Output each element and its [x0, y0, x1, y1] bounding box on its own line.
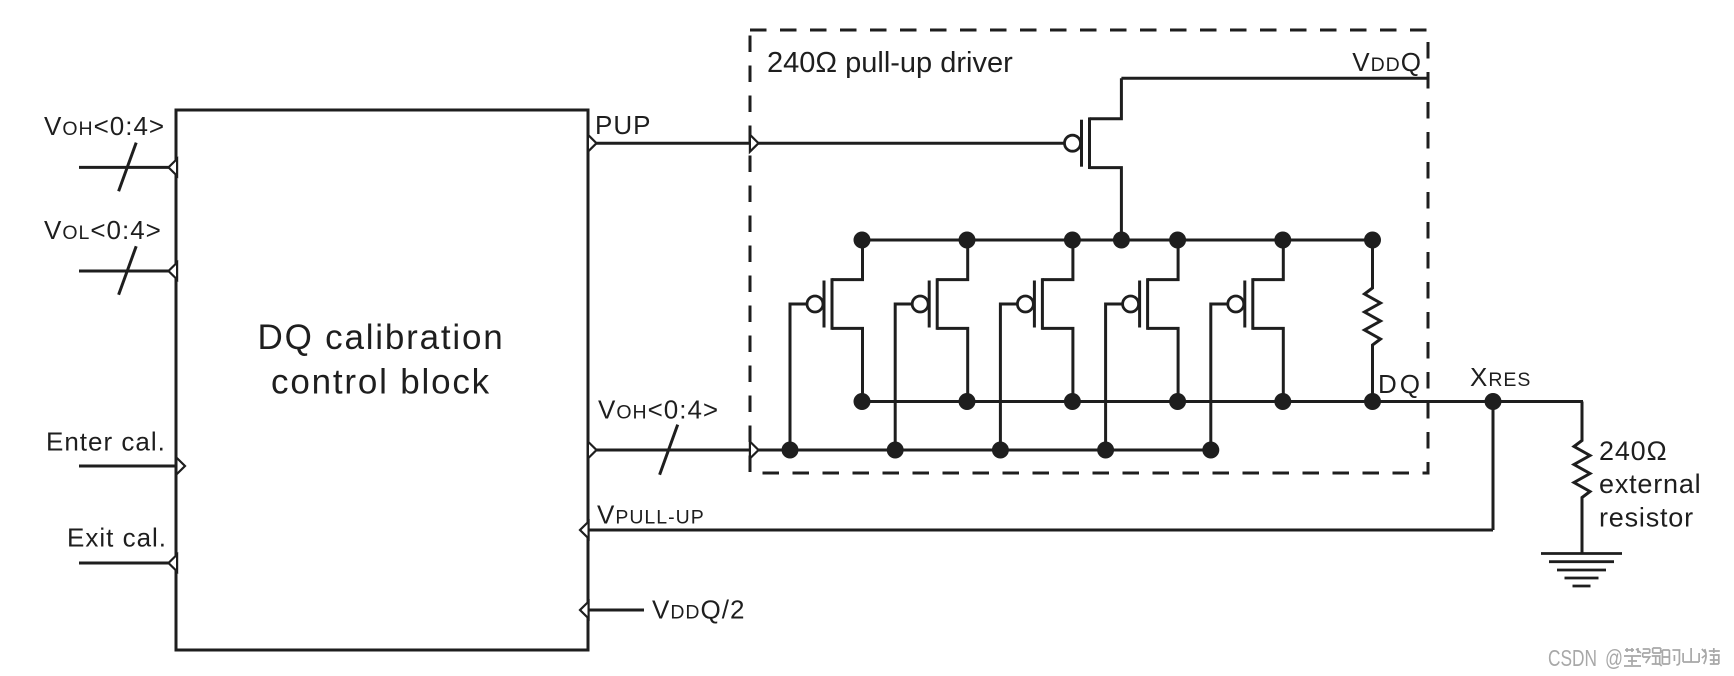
- junction: source bus x=1177.6: [1169, 232, 1186, 249]
- transistor Q5 (binary-weighted leg 5) (PMOS): [1228, 240, 1284, 402]
- arrowhead: PUP leaving control block (points right): [588, 135, 597, 152]
- arrowhead: PUP entering driver block (points right): [750, 135, 759, 152]
- wire: Q5 gate to VOH bus: [1211, 304, 1228, 450]
- junction: source bus x=862: [854, 232, 871, 249]
- junction: DQ bus x=1282.8: [1274, 393, 1291, 410]
- wire: DQ net (drains bus out to XRES corner): [862, 400, 1583, 403]
- transistor Q3 (binary-weighted leg 3) (PMOS): [1017, 240, 1073, 402]
- svg-text:VDDQ/2: VDDQ/2: [652, 595, 745, 625]
- svg-text:DQ calibration: DQ calibration: [258, 318, 505, 357]
- svg-text:240Ω pull-up driver: 240Ω pull-up driver: [767, 47, 1013, 79]
- svg-text:240Ω: 240Ω: [1599, 436, 1667, 466]
- svg-text:Exit cal.: Exit cal.: [67, 523, 167, 553]
- transistor Q4 (binary-weighted leg 4) (PMOS): [1123, 240, 1179, 402]
- wire: VOH<0:4> from control block to dashed boundary: [596, 449, 749, 452]
- junction: VOH gate bus x=1210.8: [1202, 442, 1219, 459]
- junction: source bus x=1372.5: [1364, 232, 1381, 249]
- junction: VOH gate bus x=790: [782, 442, 799, 459]
- junction: VOH gate bus x=1105.6: [1097, 442, 1114, 459]
- wire: Enter cal. input: [79, 465, 176, 468]
- wire: Exit cal.: [79, 562, 169, 565]
- bus-width slash on VOL<0:4> input: [119, 246, 137, 295]
- junction: VOH gate bus x=1000.4: [992, 442, 1009, 459]
- wire: Q2 gate to VOH bus: [895, 304, 912, 450]
- wire: Q3 gate to VOH bus: [1000, 304, 1017, 450]
- control block U1: DQ calibration control block: [176, 110, 588, 650]
- wire: XRES sense drop (vertical): [1492, 402, 1495, 531]
- svg-text:VPULL-UP: VPULL-UP: [597, 500, 705, 530]
- watermark: CSDN @... (decorative-ish but part of image): [1548, 645, 1623, 671]
- junction: source bus x=1072.4: [1064, 232, 1081, 249]
- svg-text:resistor: resistor: [1599, 503, 1694, 533]
- svg-text:external: external: [1599, 469, 1701, 499]
- bus-width slash on VOH<0:4>: [660, 425, 678, 475]
- ground symbol: [1541, 554, 1622, 587]
- wire: VDDQ/2 reference stub: [588, 609, 644, 612]
- resistor R2 (240-ohm external): [1574, 402, 1590, 554]
- arrowhead: VOH<0:4> entering driver block (points right): [750, 442, 759, 459]
- dashed boundary: 240-ohm pull-up driver block: [750, 30, 1428, 473]
- arrowhead: VPULL-UP into control block (points left): [580, 522, 589, 539]
- transistor Q2 (binary-weighted leg 2) (PMOS): [912, 240, 968, 402]
- wire: PUP from boundary to Q0 gate: [759, 142, 1065, 145]
- wire: VPULL-UP feedback to control block: [588, 529, 1493, 532]
- junction: VOH gate bus x=895.2: [887, 442, 904, 459]
- svg-text:VOH<0:4>: VOH<0:4>: [44, 111, 165, 141]
- junction: source bus x=1282.8: [1274, 232, 1291, 249]
- svg-text:VDDQ: VDDQ: [1352, 47, 1422, 77]
- junction: DQ bus x=862: [854, 393, 871, 410]
- svg-text:control block: control block: [271, 363, 491, 402]
- wire: VOH<0:4> input (left): [79, 166, 169, 169]
- junction: source bus x=1121.4: [1113, 232, 1130, 249]
- svg-text:Enter cal.: Enter cal.: [46, 427, 166, 457]
- arrowhead: Enter cal. into control block (points right): [176, 458, 185, 475]
- junction: XRES node on DQ line: [1485, 393, 1502, 410]
- wire: VOL<0:4> input (left): [79, 270, 169, 273]
- wire: Q4 gate to VOH bus: [1106, 304, 1123, 450]
- svg-text:XRES: XRES: [1470, 362, 1531, 392]
- power rail: VDDQ: [1121, 77, 1427, 80]
- arrowhead: Exit cal. at control block left edge (points left): [169, 555, 178, 572]
- junction: DQ bus x=1177.6: [1169, 393, 1186, 410]
- wire: source bus (node between Q0 drain and Q1-Q5 sources): [862, 239, 1373, 242]
- junction: DQ bus x=1372.5: [1364, 393, 1381, 410]
- wire: VOH<0:4> gate bus inside driver: [759, 449, 1217, 452]
- wire: Q1 gate to VOH bus: [790, 304, 807, 450]
- junction: source bus x=967: [959, 232, 976, 249]
- bus-width slash on VOH<0:4> input: [119, 143, 137, 192]
- arrowhead: VOH<0:4> at control block left edge (points left): [169, 159, 178, 176]
- arrowhead: VOH<0:4> leaving control block (points right): [588, 442, 597, 459]
- svg-text:DQ: DQ: [1378, 369, 1423, 399]
- resistor R1 (driver series resistor): [1365, 240, 1381, 402]
- svg-text:VOL<0:4>: VOL<0:4>: [44, 215, 162, 245]
- arrowhead: VOL<0:4> at control block left edge (points left): [169, 263, 178, 280]
- junction: DQ bus x=1072.4: [1064, 393, 1081, 410]
- transistor Q0 (PUP pull-up) (PMOS): [1065, 78, 1122, 240]
- svg-text:CSDN: CSDN: [1548, 645, 1597, 671]
- arrowhead: VDDQ/2 into control block (points left): [580, 602, 589, 619]
- svg-text:PUP: PUP: [595, 110, 651, 140]
- wire: PUP from control block to dashed boundary: [596, 142, 749, 145]
- svg-text:VOH<0:4>: VOH<0:4>: [598, 395, 719, 425]
- transistor Q1 (binary-weighted leg 1) (PMOS): [807, 240, 863, 402]
- junction: DQ bus x=967: [959, 393, 976, 410]
- svg-text:@: @: [1605, 645, 1623, 671]
